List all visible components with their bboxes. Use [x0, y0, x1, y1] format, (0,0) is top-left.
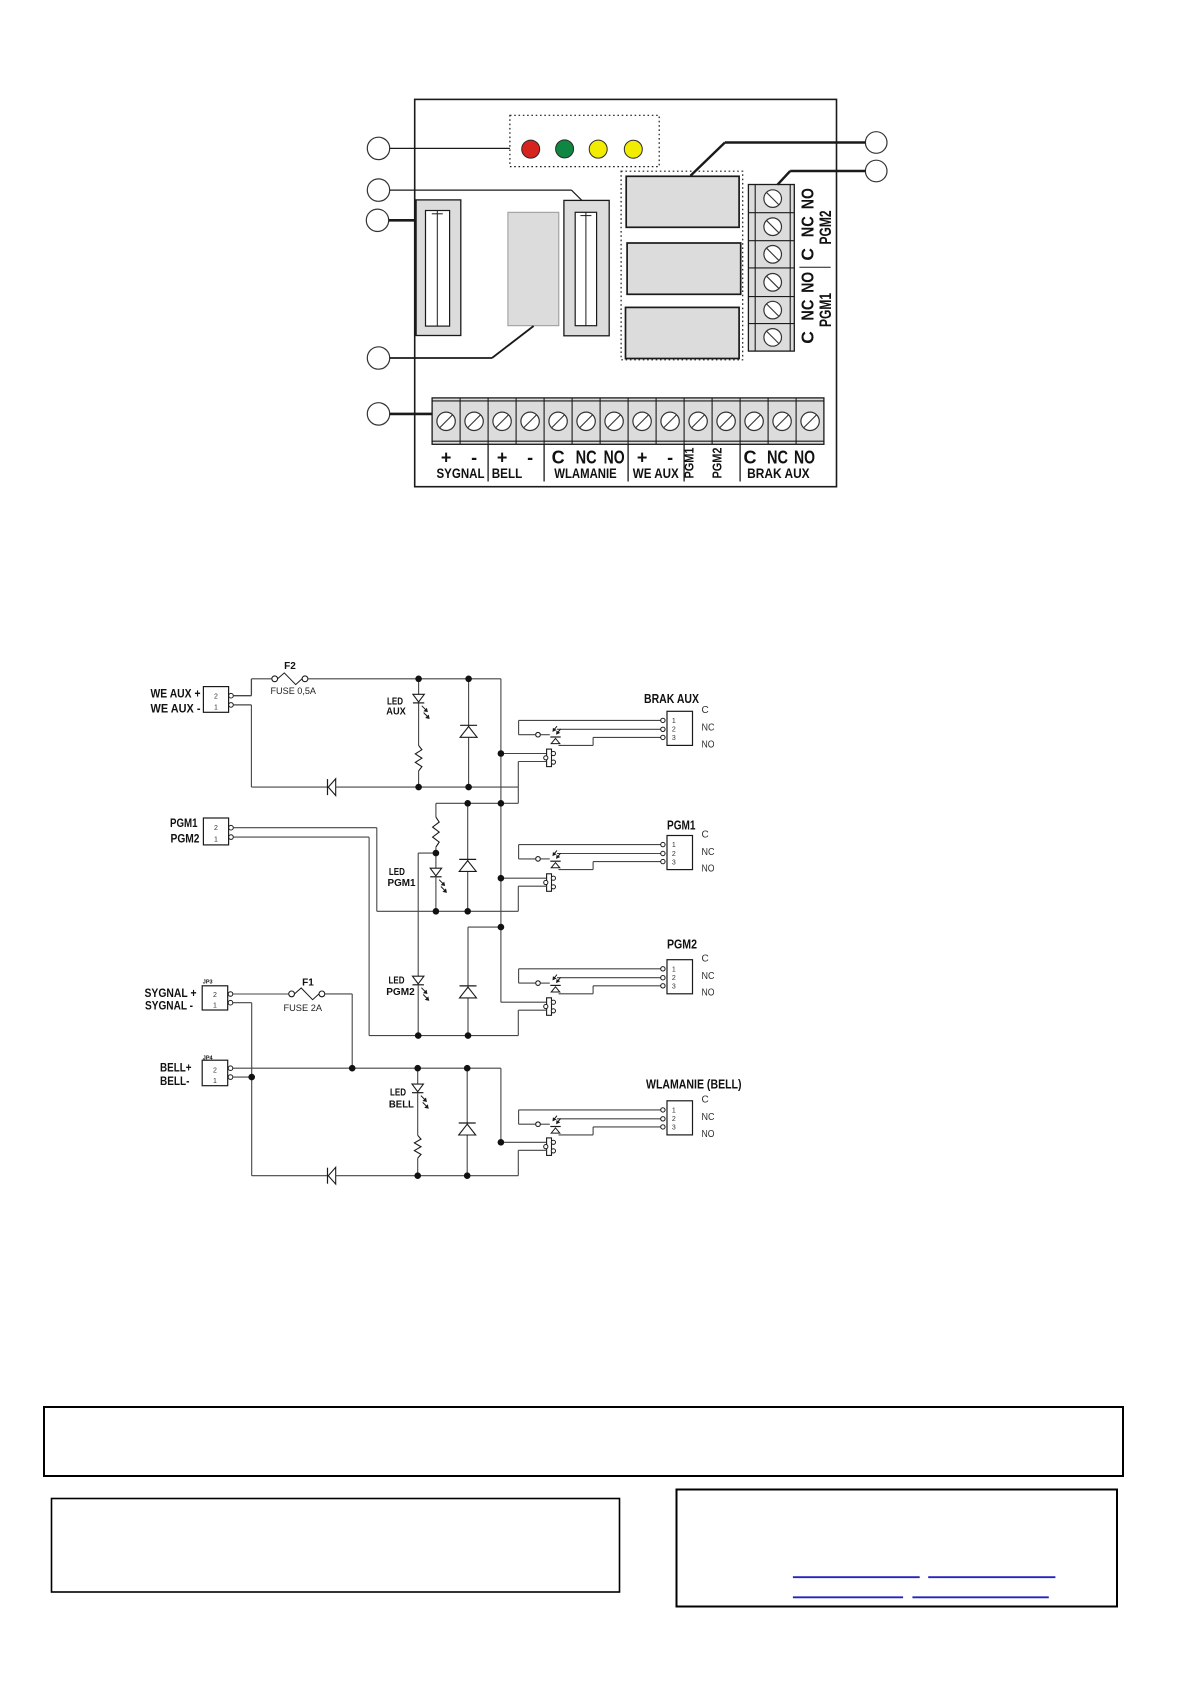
svg-text:NO: NO [702, 864, 715, 875]
svg-text:1: 1 [213, 1003, 217, 1010]
svg-text:NO: NO [702, 739, 715, 750]
svg-text:C: C [798, 331, 818, 344]
svg-text:WE AUX: WE AUX [633, 465, 680, 481]
svg-text:BELL: BELL [389, 1098, 415, 1110]
svg-text:PGM1: PGM1 [388, 877, 416, 889]
svg-text:NC: NC [702, 723, 715, 734]
svg-text:NC: NC [702, 971, 715, 982]
svg-text:PGM2: PGM2 [171, 833, 200, 845]
svg-text:1: 1 [672, 1108, 676, 1115]
svg-text:C: C [702, 954, 709, 965]
svg-text:1: 1 [672, 718, 676, 725]
svg-text:1: 1 [214, 704, 218, 711]
svg-text:3: 3 [672, 984, 676, 991]
svg-text:2: 2 [672, 975, 676, 982]
svg-text:BELL-: BELL- [160, 1076, 190, 1088]
svg-text:WLAMANIE: WLAMANIE [554, 465, 617, 481]
svg-text:2: 2 [672, 727, 676, 734]
svg-text:1: 1 [672, 842, 676, 849]
svg-text:C: C [702, 829, 709, 840]
svg-text:2: 2 [213, 1067, 217, 1074]
svg-text:PGM2: PGM2 [710, 448, 725, 479]
svg-text:LED: LED [389, 974, 405, 986]
svg-text:2: 2 [672, 851, 676, 858]
svg-text:3: 3 [672, 859, 676, 866]
svg-text:PGM1: PGM1 [817, 293, 835, 327]
svg-text:NO: NO [798, 188, 818, 209]
svg-text:2: 2 [672, 1116, 676, 1123]
svg-text:FUSE 0,5A: FUSE 0,5A [271, 686, 317, 697]
svg-text:3: 3 [672, 735, 676, 742]
svg-text:PGM2: PGM2 [386, 986, 415, 998]
svg-text:C: C [702, 1095, 709, 1106]
svg-text:BRAK AUX: BRAK AUX [747, 465, 810, 481]
svg-text:NC: NC [798, 299, 818, 320]
svg-text:NC: NC [798, 216, 818, 237]
svg-text:WE AUX -: WE AUX - [151, 704, 201, 716]
svg-text:1: 1 [213, 1078, 217, 1085]
svg-text:NC: NC [702, 847, 715, 858]
svg-text:NO: NO [702, 988, 715, 999]
svg-text:BELL: BELL [492, 465, 523, 481]
svg-text:NC: NC [702, 1112, 715, 1123]
svg-text:3: 3 [672, 1125, 676, 1132]
svg-text:SYGNAL: SYGNAL [437, 465, 485, 481]
svg-text:NO: NO [798, 272, 818, 293]
svg-text:-: - [527, 448, 533, 468]
svg-text:F1: F1 [302, 978, 314, 989]
svg-text:NO: NO [702, 1129, 715, 1140]
svg-text:PGM2: PGM2 [667, 938, 697, 952]
svg-text:F2: F2 [284, 661, 296, 672]
svg-text:SYGNAL +: SYGNAL + [145, 988, 197, 1000]
svg-text:C: C [702, 705, 709, 716]
svg-text:JP3: JP3 [203, 980, 213, 986]
svg-text:PGM1: PGM1 [667, 818, 696, 832]
svg-text:2: 2 [214, 694, 218, 701]
svg-text:1: 1 [214, 836, 218, 843]
svg-text:2: 2 [213, 992, 217, 999]
svg-text:C: C [798, 248, 818, 261]
svg-text:WE AUX +: WE AUX + [151, 688, 201, 700]
svg-text:FUSE 2A: FUSE 2A [284, 1003, 323, 1014]
svg-text:LED: LED [389, 866, 405, 878]
svg-text:LED: LED [390, 1087, 406, 1099]
svg-text:1: 1 [672, 966, 676, 973]
svg-text:PGM1: PGM1 [170, 818, 198, 830]
svg-text:WLAMANIE (BELL): WLAMANIE (BELL) [646, 1078, 742, 1092]
svg-text:BELL+: BELL+ [160, 1063, 192, 1075]
svg-text:PGM2: PGM2 [817, 211, 835, 245]
svg-text:SYGNAL -: SYGNAL - [145, 1001, 193, 1013]
svg-text:2: 2 [214, 825, 218, 832]
svg-text:AUX: AUX [386, 706, 406, 718]
svg-text:BRAK AUX: BRAK AUX [644, 692, 700, 706]
